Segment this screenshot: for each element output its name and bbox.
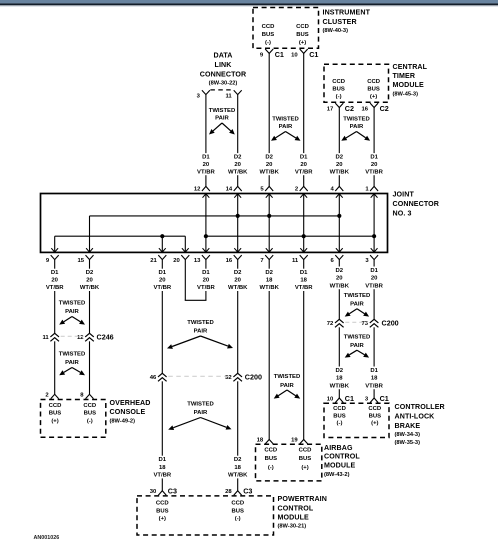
svg-text:PAIR: PAIR [279,124,293,130]
svg-text:TWISTED: TWISTED [209,108,236,114]
wire label D2 20 WT/BK (console) [80,269,100,292]
svg-text:BUS: BUS [333,413,346,419]
wire label D2 18 WT/BK (CAB lower) [330,367,350,390]
wire DLC pin11 to joint pin14 (D2 20 WT/BK) [237,95,239,187]
svg-text:VT/BR: VT/BR [295,285,313,291]
wire label D1 20 VT/BR (DLC) [196,153,215,175]
jumper wire joint pin20 to pin13 [185,260,207,301]
svg-text:CONTROLLER: CONTROLLER [395,403,445,411]
PCM pin 30 C3 [150,486,177,495]
data link connector dashed tie [210,89,233,91]
svg-text:5: 5 [260,186,264,192]
svg-text:9: 9 [46,258,50,264]
svg-text:PAIR: PAIR [194,329,208,335]
svg-text:BUS: BUS [49,411,62,417]
svg-text:20: 20 [173,258,180,264]
svg-text:TWISTED: TWISTED [274,374,301,380]
airbag control module box [256,444,322,481]
C200 faint tie line (right) [345,321,368,323]
wire label D1 20 VT/BR (CTM) [365,153,384,175]
controller anti-lock brake label [395,403,445,446]
svg-text:(+): (+) [51,418,58,424]
svg-text:C200: C200 [245,373,262,382]
svg-text:13: 13 [194,258,201,264]
joint connector no. 3 label [393,191,440,218]
svg-text:D2: D2 [265,154,273,160]
svg-text:9: 9 [260,52,264,58]
svg-text:20: 20 [51,278,58,284]
svg-text:TWISTED: TWISTED [187,402,214,408]
svg-text:PAIR: PAIR [350,302,364,308]
svg-text:(8W-40-3): (8W-40-3) [323,28,349,34]
PCM CCD BUS (-) [231,501,244,523]
wire C246 pin11 to console pin2 [54,341,56,394]
svg-text:BUS: BUS [265,456,278,462]
svg-text:16: 16 [226,258,233,264]
svg-text:PAIR: PAIR [350,343,364,349]
svg-text:3: 3 [365,258,369,264]
wire pin15 stub to rail [86,216,93,253]
svg-text:(+): (+) [370,94,377,100]
wire pin20 stub to rail [182,236,189,252]
data link connector pin 3 [197,90,210,99]
svg-text:18: 18 [300,278,307,284]
wire label D1 20 VT/BR (CAB upper) [365,267,384,290]
svg-text:BUS: BUS [296,32,309,38]
wire label D2 18 WT/BK (PCM) [228,456,248,479]
svg-text:CENTRAL: CENTRAL [393,63,428,71]
svg-text:CCD: CCD [49,403,62,409]
svg-text:MODULE: MODULE [324,461,356,469]
powertrain control module box [137,496,274,535]
wire C200 pin72 to CAB pin10 (D2 18 WT/BK) [338,327,340,398]
joint connector bottom pin 15 [77,255,93,264]
svg-text:D2: D2 [265,270,273,276]
bus rail segment B (VT/BR net) inside joint connector [204,234,376,238]
svg-text:18: 18 [234,465,241,471]
svg-text:C1: C1 [380,394,389,403]
svg-text:CONNECTOR: CONNECTOR [393,200,440,208]
joint connector top pin 2 [295,186,308,192]
svg-text:(8W-49-2): (8W-49-2) [110,418,136,424]
svg-text:7: 7 [260,258,264,264]
svg-text:16: 16 [362,106,369,112]
PCM pin 28 C3 [225,486,252,495]
twisted pair indicator (console lower) [59,352,86,376]
svg-text:D1: D1 [370,368,378,374]
powertrain control module label [278,495,327,530]
svg-text:(-): (-) [235,516,241,522]
svg-text:CCD: CCD [264,448,277,454]
central timer module label [393,63,428,97]
svg-text:20: 20 [234,278,241,284]
svg-text:18: 18 [257,438,264,444]
svg-text:WT/BK: WT/BK [228,473,248,479]
svg-text:CCD: CCD [231,501,244,507]
svg-text:D1: D1 [370,154,378,160]
twisted pair indicator (CAB lower) [344,334,371,357]
svg-text:WT/BK: WT/BK [330,383,350,389]
joint connector top pin 5 [260,186,273,192]
joint connector bottom pin 11 [292,255,308,264]
svg-text:18: 18 [336,376,343,382]
svg-text:WT/BK: WT/BK [330,169,350,175]
wire joint pin6 to C200 pin72 (D2 20 WT/BK) [338,260,340,320]
wire joint pin16 to C200 pin52 (D2 20 WT/BK) [237,260,239,374]
wire DLC pin3 to joint pin12 (D1 20 VT/BR) [205,95,207,187]
twisted pair indicator (CAB upper) [344,293,371,317]
svg-text:C3: C3 [243,486,252,495]
CAB pin 3 C1 [365,394,389,403]
svg-text:JOINT: JOINT [393,191,415,199]
wire label D2 20 WT/BK (CTM) [330,153,350,175]
joint connector bottom pin 20 [173,255,189,264]
svg-text:C1: C1 [275,50,284,59]
svg-text:VT/BR: VT/BR [153,285,171,291]
overhead console label [110,399,151,424]
svg-text:TWISTED: TWISTED [59,301,86,307]
svg-text:21: 21 [150,258,157,264]
svg-text:D1: D1 [159,270,167,276]
wire C200 pin46 to PCM pin30 (D1 18 VT/BR) [161,381,163,490]
svg-text:10: 10 [291,52,298,58]
svg-text:CONNECTOR: CONNECTOR [200,71,247,79]
central timer module box [324,64,389,102]
svg-text:TWISTED: TWISTED [344,334,371,340]
wire pin5 to pin7 through box [266,194,273,253]
svg-text:19: 19 [291,438,298,444]
svg-text:D2: D2 [234,457,242,463]
svg-text:20: 20 [159,278,166,284]
joint connector top pin 4 [331,186,344,192]
svg-text:TWISTED: TWISTED [344,293,371,299]
svg-text:3: 3 [365,396,369,402]
svg-text:(-): (-) [268,465,274,471]
svg-text:4: 4 [331,186,335,192]
twisted pair indicator (CTM) [341,117,370,141]
central timer module pin 17 C2 [327,103,354,113]
wire label D1 18 VT/BR (PCM) [153,456,172,479]
wire joint pin15 to C246 pin12 (D2 20 WT/BK) [89,260,91,334]
bus rail (WT/BK net) inside joint connector [90,214,342,218]
svg-text:D1: D1 [300,270,308,276]
instrument cluster pin 9 C1 [260,49,284,59]
svg-text:CCD: CCD [368,406,381,412]
inline connector C200 pin 52 [225,373,242,381]
svg-text:72: 72 [327,321,334,327]
svg-text:VT/BR: VT/BR [295,169,313,175]
wire pin14 to pin16 through box [234,194,241,253]
instrument cluster box [253,8,319,49]
svg-text:20: 20 [300,162,307,168]
svg-text:BUS: BUS [332,87,345,93]
CAB pin 10 C1 [327,394,354,403]
svg-text:8: 8 [80,393,84,399]
svg-text:TWISTED: TWISTED [187,320,214,326]
svg-text:CONTROL: CONTROL [324,453,360,461]
svg-text:D2: D2 [336,268,344,274]
svg-text:POWERTRAIN: POWERTRAIN [278,495,327,503]
twisted pair indicator (DLC) [209,108,236,135]
joint connector bottom pin 3 [365,255,378,264]
svg-text:18: 18 [371,376,378,382]
twisted pair indicator (IC) [271,117,301,141]
joint connector bottom pin 21 [150,255,166,264]
data link connector label [200,52,247,87]
svg-text:BUS: BUS [369,413,382,419]
overhead console pin 2 [45,393,58,399]
svg-text:INSTRUMENT: INSTRUMENT [323,9,371,17]
wire label D2 20 WT/BK (IC) [260,153,280,175]
svg-text:VT/BR: VT/BR [197,169,215,175]
joint connector bottom pin 9 [46,255,59,264]
twisted pair indicator (console upper) [59,301,86,325]
svg-text:VT/BR: VT/BR [365,383,383,389]
svg-text:C2: C2 [380,104,389,113]
inline connector C200 pin 46 [150,373,167,381]
svg-text:(8W-30-22): (8W-30-22) [209,81,238,87]
joint connector top pin 12 [194,186,210,192]
svg-text:14: 14 [226,186,233,192]
title bar [0,0,498,3]
svg-text:PAIR: PAIR [194,410,208,416]
svg-text:D1: D1 [202,270,210,276]
wire label D1 20 VT/BR (pin13) [196,269,215,292]
wire label D1 18 VT/BR (CAB lower) [365,367,384,390]
airbag CCD BUS (-) [264,448,277,471]
svg-text:PAIR: PAIR [65,309,79,315]
svg-text:20: 20 [266,162,273,168]
inline connector C246 pin 11 [42,333,59,341]
svg-text:C3: C3 [168,486,177,495]
svg-text:C200: C200 [382,319,399,328]
CAB CCD BUS (+) [368,406,381,426]
inline connector C200 pin 73 [362,319,379,327]
wire label D2 20 WT/BK (CAB upper) [330,267,350,290]
svg-text:WT/BK: WT/BK [228,169,248,175]
wire joint pin21 to C200 pin46 (D1 20 VT/BR) [161,260,163,374]
svg-text:(+): (+) [301,465,308,471]
svg-text:(+): (+) [299,40,306,46]
svg-text:D1: D1 [300,154,308,160]
central timer module CCD BUS (-) [332,79,345,100]
instrument cluster CCD BUS (+) [296,24,309,46]
svg-text:C246: C246 [97,333,114,342]
PCM CCD BUS (+) [156,501,169,523]
svg-text:PAIR: PAIR [280,383,294,389]
svg-text:AIRBAG: AIRBAG [324,444,353,452]
svg-text:MODULE: MODULE [278,514,310,522]
svg-text:D2: D2 [234,270,242,276]
svg-text:WT/BK: WT/BK [80,285,100,291]
svg-text:CLUSTER: CLUSTER [323,18,357,26]
wire label D2 18 WT/BK (airbag) [260,269,280,292]
svg-text:15: 15 [77,258,84,264]
svg-text:(-): (-) [336,94,342,100]
svg-text:D1: D1 [202,154,210,160]
central timer module CCD BUS (+) [367,79,380,100]
svg-text:28: 28 [225,489,232,495]
svg-text:CCD: CCD [367,79,380,85]
svg-text:30: 30 [150,489,157,495]
svg-text:VT/BR: VT/BR [153,473,171,479]
svg-text:C2: C2 [345,104,354,113]
svg-text:(+): (+) [371,420,378,426]
svg-text:10: 10 [327,396,334,402]
wire pin4 to pin6 through box [336,194,343,253]
svg-text:TIMER: TIMER [393,72,416,80]
data link connector pin 11 [225,90,241,99]
C246 faint tie line [61,335,84,337]
svg-text:(8W-30-21): (8W-30-21) [278,524,307,530]
wire pin9 stub to rail [51,236,58,252]
svg-text:C1: C1 [345,394,354,403]
svg-text:17: 17 [327,106,334,112]
instrument cluster CCD BUS (-) [262,24,275,46]
instrument cluster label [323,9,371,35]
overhead console box [41,400,106,438]
airbag pin 19 [291,438,308,444]
svg-text:CCD: CCD [332,79,345,85]
svg-text:2: 2 [295,186,299,192]
joint connector bottom pin 13 [194,255,210,264]
wire CTM pin17 to joint pin4 (D2 20 WT/BK) [338,108,340,187]
wire label D1 20 VT/BR (console) [45,269,64,292]
svg-text:DATA: DATA [213,52,232,60]
svg-text:CCD: CCD [296,24,309,30]
svg-text:CCD: CCD [262,24,275,30]
inline connector C200 pin 72 [327,319,344,327]
svg-text:1: 1 [365,186,369,192]
joint connector top pin 1 [365,186,378,192]
svg-text:6: 6 [331,258,335,264]
svg-text:PAIR: PAIR [65,360,79,366]
svg-text:NO. 3: NO. 3 [393,210,412,218]
svg-text:11: 11 [292,258,299,264]
svg-text:20: 20 [203,162,210,168]
wire pin2 to pin11 through box [300,194,307,253]
svg-text:CONSOLE: CONSOLE [110,408,146,416]
svg-text:20: 20 [336,276,343,282]
wire label D1 18 VT/BR (airbag) [294,269,313,292]
joint connector no. 3 box [41,194,388,253]
svg-text:WT/BK: WT/BK [228,285,248,291]
controller anti-lock brake box [324,403,389,437]
svg-text:D2: D2 [86,270,94,276]
wire joint pin9 to C246 pin11 (D1 20 VT/BR) [54,260,56,334]
svg-text:CCD: CCD [83,403,96,409]
svg-text:(8W-45-3): (8W-45-3) [393,91,419,97]
wire label D2 20 WT/BK (DLC) [228,153,248,175]
svg-text:D2: D2 [336,368,344,374]
joint connector top pin 14 [226,186,242,192]
svg-text:20: 20 [86,278,93,284]
svg-text:2: 2 [45,393,49,399]
instrument cluster pin 10 C1 [291,49,318,59]
wire label D1 20 VT/BR (pin21) [153,269,172,292]
svg-text:20: 20 [203,278,210,284]
wire C200 pin52 to PCM pin28 (D2 18 WT/BK) [237,381,239,490]
wire C200 pin73 to CAB pin3 (D1 18 VT/BR) [373,327,375,398]
joint connector bottom pin 6 [331,255,344,264]
svg-text:3: 3 [197,94,201,100]
wire pin12 to pin13 through box [203,194,210,253]
inline connector C246 pin 12 [77,333,94,341]
wire IC pin9 to joint pin5 (D2 20 WT/BK) [268,53,270,186]
svg-text:ANTI-LOCK: ANTI-LOCK [395,413,436,421]
svg-text:D1: D1 [51,270,59,276]
svg-text:BUS: BUS [299,456,312,462]
svg-text:BUS: BUS [84,411,97,417]
svg-text:(8W-35-3): (8W-35-3) [395,440,421,446]
twisted pair indicator (PCM upper) [167,320,233,349]
wire pin21 stub to rail [159,236,166,252]
airbag CCD BUS (+) [299,448,312,471]
svg-text:D2: D2 [336,154,344,160]
svg-text:TWISTED: TWISTED [59,352,86,358]
svg-text:20: 20 [371,276,378,282]
svg-text:CONTROL: CONTROL [278,505,314,513]
svg-text:LINK: LINK [215,61,233,69]
svg-text:BUS: BUS [231,508,244,514]
svg-text:11: 11 [42,335,49,341]
svg-text:20: 20 [371,162,378,168]
svg-text:PAIR: PAIR [215,116,229,122]
svg-text:WT/BK: WT/BK [260,169,280,175]
airbag control module label [324,444,360,478]
wire joint pin3 to C200 pin73 (D1 20 VT/BR) [373,260,375,320]
svg-text:20: 20 [234,162,241,168]
svg-text:VT/BR: VT/BR [365,283,383,289]
overhead console pin 8 [80,393,93,399]
svg-text:VT/BR: VT/BR [197,285,215,291]
svg-text:12: 12 [194,186,201,192]
svg-text:D2: D2 [234,154,242,160]
svg-text:CCD: CCD [299,448,312,454]
svg-text:BUS: BUS [367,87,380,93]
svg-text:CCD: CCD [333,406,346,412]
wire CTM pin16 to joint pin1 (D1 20 VT/BR) [373,108,375,187]
bus rail segment A (VT/BR net) inside joint connector [55,234,186,238]
joint connector bottom pin 16 [226,255,242,264]
svg-text:(-): (-) [265,40,271,46]
airbag pin 18 [257,438,274,444]
svg-text:(8W-34-3): (8W-34-3) [395,432,421,438]
svg-text:(+): (+) [159,516,166,522]
svg-text:AN001026: AN001026 [34,535,60,541]
wire joint pin7 to airbag pin18 (D2 18 WT/BK) [268,260,270,440]
svg-text:D1: D1 [370,268,378,274]
svg-text:OVERHEAD: OVERHEAD [110,399,151,407]
wire IC pin10 to joint pin2 (D1 20 VT/BR) [303,53,305,186]
wire C246 pin12 to console pin8 [89,341,91,394]
twisted pair indicator (PCM lower) [168,402,231,431]
svg-text:TWISTED: TWISTED [343,117,370,123]
svg-text:(-): (-) [337,420,343,426]
wire label D2 20 WT/BK (pin16) [228,269,248,292]
svg-text:PAIR: PAIR [350,124,364,130]
svg-text:C1: C1 [309,50,318,59]
twisted pair indicator (airbag) [274,374,301,399]
svg-text:VT/BR: VT/BR [46,285,64,291]
CAB CCD BUS (-) [333,406,346,426]
svg-text:18: 18 [266,278,273,284]
svg-text:CCD: CCD [156,501,169,507]
svg-text:D1: D1 [159,457,167,463]
svg-text:TWISTED: TWISTED [272,117,299,123]
svg-text:(-): (-) [87,418,93,424]
svg-text:BUS: BUS [156,508,169,514]
